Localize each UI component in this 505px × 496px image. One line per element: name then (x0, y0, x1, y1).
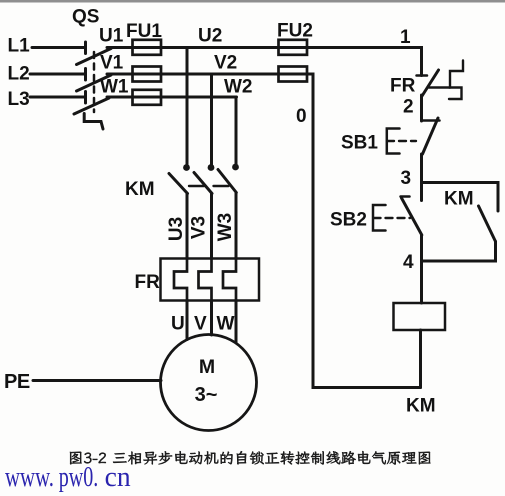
svg-text:www.: www. (5, 462, 54, 493)
wire U2 bus (160, 46, 282, 49)
svg-text:V1: V1 (100, 53, 124, 74)
caption text 图3-2 ... vector glyphs (70, 451, 431, 465)
wire KM to FR heater a (186, 194, 189, 259)
fuse FU1-c (133, 90, 162, 105)
wire drop V2 to KM (210, 74, 213, 168)
svg-text:PE: PE (4, 371, 30, 393)
wire L2 input (30, 73, 84, 76)
wire W1 (107, 96, 134, 99)
contactor KM blade a (169, 174, 188, 194)
wire drop W2 to KM (235, 97, 238, 167)
svg-text:cn: cn (105, 462, 131, 493)
button SB2 blade (402, 198, 422, 235)
wire FR to motor V (210, 301, 213, 336)
wire PE (33, 379, 161, 382)
svg-text:KM: KM (125, 179, 155, 200)
contact KM aux blade (479, 206, 496, 242)
contactor KM dot c (232, 164, 239, 171)
svg-text:1: 1 (400, 27, 411, 48)
thermal relay heater a (174, 259, 187, 301)
wire FR to motor W (235, 301, 238, 343)
svg-text:M: M (199, 356, 215, 378)
contactor KM linkage dash 1 (189, 185, 204, 187)
wire SB1 to node3 (420, 154, 423, 183)
svg-text:V2: V2 (214, 53, 237, 74)
contactor KM linkage dash 2 (214, 185, 229, 187)
relay contact FR link to element (429, 86, 450, 89)
wire KM to FR heater b (210, 194, 213, 259)
svg-text:L3: L3 (8, 89, 30, 110)
switch QS pole 1 blade (77, 49, 112, 65)
button SB2 actuator bracket (373, 205, 386, 231)
wire neutral 0 line (306, 74, 421, 388)
button SB2 blade tick (401, 195, 410, 198)
switch QS pole 3 blade (74, 98, 109, 114)
switch QS pole 2 blade (77, 75, 112, 91)
wire FR to motor U (186, 301, 189, 340)
svg-text:3~: 3~ (195, 384, 218, 406)
button SB1 seat tick (422, 119, 440, 122)
contactor KM blade c (218, 170, 236, 193)
contactor KM dot a (183, 164, 190, 171)
svg-text:2: 2 (403, 97, 414, 118)
wire W2 bus (160, 96, 237, 99)
switch QS linkage dashed (93, 52, 96, 112)
wire coil to bottom (419, 330, 422, 388)
wire node2 (420, 95, 423, 121)
svg-text:U2: U2 (198, 26, 222, 47)
svg-text:QS: QS (72, 7, 99, 28)
svg-text:pw0.: pw0. (59, 462, 99, 493)
svg-text:L1: L1 (8, 36, 31, 57)
thermal relay FR box (161, 259, 260, 301)
wire node3 branch to KM aux (422, 183, 499, 212)
button SB1 actuator dashed link (387, 140, 416, 142)
motor M circle (161, 335, 257, 431)
contactor KM blade b (194, 173, 212, 194)
relay contact FR blade (422, 70, 439, 96)
button SB1 blade (423, 118, 439, 154)
switch QS pole 2 fixed contact (84, 69, 87, 81)
svg-text:W1: W1 (100, 77, 129, 98)
wire KM to FR heater c (235, 193, 238, 259)
button SB2 actuator dashed link (374, 217, 411, 219)
top gray edge bar (0, 0, 505, 3)
svg-text:FR: FR (390, 76, 416, 97)
svg-text:V: V (194, 314, 207, 335)
switch QS handle (84, 114, 103, 130)
fuse FU1-a (133, 40, 162, 55)
wire L3 input (30, 96, 84, 99)
fuse FU1-b (133, 67, 162, 82)
svg-text:4: 4 (403, 252, 414, 273)
watermark www.pw0.cn (5, 462, 131, 493)
svg-text:FR: FR (135, 272, 161, 293)
switch QS pole 1 fixed contact (84, 42, 87, 54)
svg-text:W: W (217, 314, 235, 335)
button SB1 actuator bracket (387, 129, 400, 154)
svg-text:W3: W3 (215, 213, 236, 242)
relay contact FR seat tick (417, 74, 428, 77)
svg-text:SB1: SB1 (341, 133, 378, 154)
contactor KM dot b (208, 164, 215, 171)
wire KM aux lower (422, 242, 496, 262)
coil KM rectangle (394, 303, 446, 330)
fuse FU2-b (279, 67, 308, 82)
fuse FU2-a (279, 40, 308, 55)
svg-text:W2: W2 (224, 77, 253, 98)
wire drop U2 to KM (186, 48, 189, 168)
svg-text:FU2: FU2 (277, 21, 313, 42)
svg-text:KM: KM (444, 189, 474, 210)
svg-text:KM: KM (406, 396, 436, 417)
wire U1 (107, 46, 134, 49)
svg-text:SB2: SB2 (330, 210, 367, 231)
svg-text:3: 3 (401, 168, 412, 189)
wire V1 (107, 73, 134, 76)
wire SB2 to node4 (420, 235, 423, 303)
svg-text:U1: U1 (99, 26, 124, 47)
svg-text:V3: V3 (189, 216, 210, 239)
wire phase to node 1 (306, 48, 422, 76)
wire node3 down (420, 183, 423, 201)
thermal relay heater b (199, 259, 212, 301)
relay FR actuator square-wave (449, 61, 463, 100)
svg-text:U3: U3 (166, 217, 187, 241)
svg-text:0: 0 (296, 106, 307, 127)
wire L1 input (32, 46, 84, 49)
switch QS pole 3 fixed contact (84, 92, 87, 104)
wire V2 bus (160, 73, 282, 76)
svg-text:L2: L2 (8, 64, 30, 85)
svg-text:U: U (171, 314, 185, 335)
thermal relay heater c (223, 259, 236, 301)
